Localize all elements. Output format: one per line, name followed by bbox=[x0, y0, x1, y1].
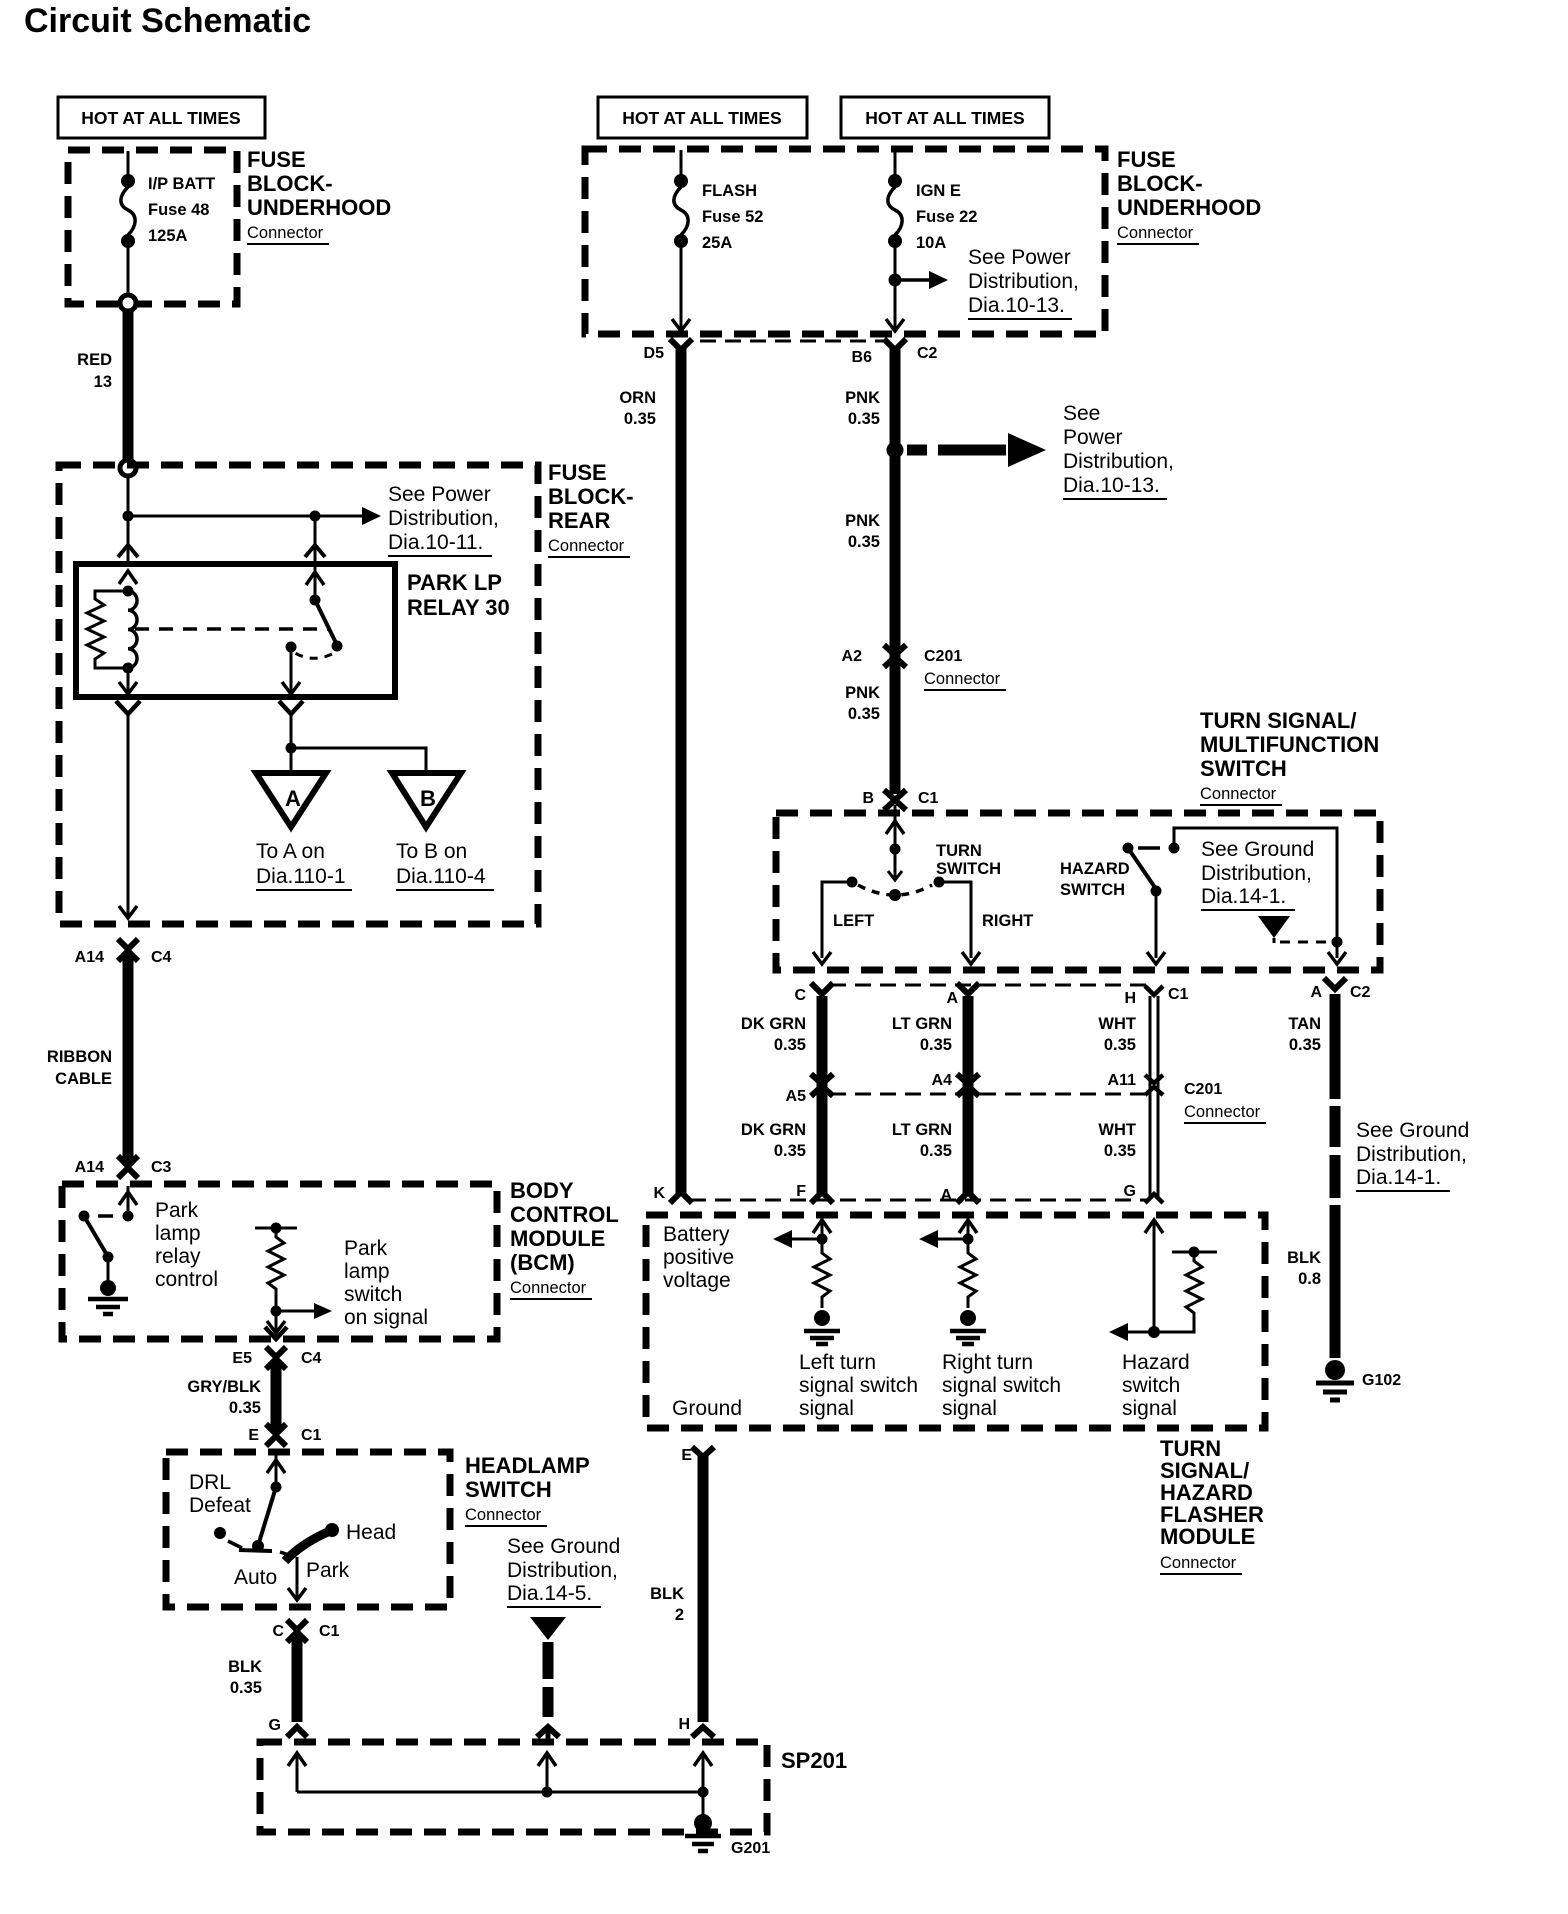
inline connector B/C1 bbox=[884, 790, 906, 810]
svg-text:E5: E5 bbox=[232, 1350, 252, 1367]
svg-text:lamp: lamp bbox=[344, 1260, 390, 1283]
svg-text:0.8: 0.8 bbox=[1298, 1270, 1321, 1288]
svg-text:H: H bbox=[1124, 990, 1136, 1007]
svg-text:0.35: 0.35 bbox=[1289, 1036, 1321, 1054]
HOT AT ALL TIMES box 2 bbox=[598, 97, 807, 138]
svg-text:C3: C3 bbox=[151, 1159, 172, 1176]
svg-text:LT GRN: LT GRN bbox=[892, 1121, 952, 1139]
ground dist wire triangle bbox=[530, 1617, 566, 1640]
hazard resistor bbox=[1172, 1251, 1217, 1254]
dashed connector line module row bbox=[690, 1199, 1146, 1202]
svg-text:CABLE: CABLE bbox=[55, 1070, 112, 1088]
svg-text:IGN E: IGN E bbox=[916, 182, 961, 200]
head contact arc bbox=[285, 1531, 330, 1561]
svg-text:PNK: PNK bbox=[845, 389, 880, 407]
svg-text:Connector: Connector bbox=[924, 670, 1001, 688]
turn switch dashed arc bbox=[858, 885, 932, 895]
down arrow at relay bottom left bbox=[119, 682, 137, 694]
svg-text:Circuit Schematic: Circuit Schematic bbox=[24, 2, 311, 40]
svg-text:C2: C2 bbox=[1350, 984, 1371, 1001]
inline connector A4 bbox=[957, 1074, 979, 1096]
branch arrow see power distribution bbox=[889, 274, 902, 287]
svg-text:DRL: DRL bbox=[189, 1471, 231, 1494]
ground G201 bbox=[702, 1792, 705, 1816]
svg-text:C4: C4 bbox=[151, 949, 172, 966]
fuse F22 IGN E 10A bbox=[888, 174, 902, 188]
svg-text:C201: C201 bbox=[924, 648, 962, 665]
svg-text:0.35: 0.35 bbox=[230, 1679, 262, 1697]
left turn resistor to ground bbox=[814, 1239, 830, 1308]
svg-text:2: 2 bbox=[675, 1606, 684, 1624]
wire into fuse 48 bbox=[127, 151, 130, 176]
node bbox=[123, 1211, 134, 1222]
svg-text:switch: switch bbox=[344, 1283, 402, 1306]
fuse F52 FLASH 25A bbox=[674, 174, 688, 188]
connector ring at fuse block bottom bbox=[120, 295, 136, 311]
wire to see power distribution bbox=[128, 515, 364, 518]
svg-text:Power: Power bbox=[1063, 426, 1123, 449]
wire dashed segments bbox=[1330, 1106, 1341, 1147]
inline connector A5 bbox=[811, 1074, 833, 1096]
svg-text:HAZARD: HAZARD bbox=[1060, 860, 1130, 878]
headlamp switch input wire bbox=[275, 1454, 278, 1487]
svg-text:BLK: BLK bbox=[228, 1658, 262, 1676]
PARK LP RELAY 30 box bbox=[76, 564, 395, 697]
svg-text:0.35: 0.35 bbox=[848, 533, 880, 551]
wire BLK 0.8 bbox=[1330, 1205, 1341, 1358]
svg-text:HOT AT ALL TIMES: HOT AT ALL TIMES bbox=[865, 108, 1024, 128]
svg-text:See Power: See Power bbox=[388, 483, 491, 506]
chevron above relay right bbox=[305, 545, 325, 557]
svg-text:HOT AT ALL TIMES: HOT AT ALL TIMES bbox=[622, 108, 781, 128]
svg-text:HEADLAMP: HEADLAMP bbox=[465, 1453, 590, 1478]
svg-text:BODY: BODY bbox=[510, 1178, 574, 1203]
wire BLK 0.35 bbox=[292, 1633, 303, 1722]
svg-text:H: H bbox=[678, 1716, 690, 1733]
svg-text:Dia.14-5.: Dia.14-5. bbox=[507, 1582, 592, 1605]
svg-text:0.35: 0.35 bbox=[774, 1036, 806, 1054]
triangle A bbox=[256, 773, 326, 827]
svg-text:WHT: WHT bbox=[1098, 1015, 1136, 1033]
svg-text:SWITCH: SWITCH bbox=[465, 1477, 552, 1502]
right turn input arrow bbox=[967, 1222, 970, 1239]
relay resistor bbox=[87, 591, 128, 668]
svg-text:DK GRN: DK GRN bbox=[741, 1015, 806, 1033]
wire LT GRN 0.35 bbox=[963, 996, 974, 1196]
svg-text:A14: A14 bbox=[75, 949, 104, 966]
inline connector G bbox=[1145, 1194, 1163, 1203]
svg-text:DK GRN: DK GRN bbox=[741, 1121, 806, 1139]
wire below coil bbox=[127, 668, 130, 695]
svg-text:Connector: Connector bbox=[510, 1279, 587, 1297]
dashed ground wire bbox=[543, 1642, 554, 1717]
svg-text:Fuse 22: Fuse 22 bbox=[916, 208, 977, 226]
svg-text:BLOCK-: BLOCK- bbox=[548, 484, 634, 509]
svg-text:0.35: 0.35 bbox=[229, 1399, 261, 1417]
svg-text:Dia.110-1: Dia.110-1 bbox=[256, 865, 346, 888]
hazard link wire to ground side bbox=[1174, 828, 1337, 958]
svg-text:Distribution,: Distribution, bbox=[388, 507, 499, 530]
svg-text:FUSE: FUSE bbox=[247, 147, 306, 172]
svg-text:Battery: Battery bbox=[663, 1223, 730, 1246]
wire GRY/BLK 0.35 bbox=[271, 1360, 282, 1432]
turn signal hazard flasher module box bbox=[646, 1215, 1265, 1428]
connector at SP201 middle bbox=[537, 1727, 559, 1737]
wire RIBBON CABLE bbox=[123, 952, 134, 1165]
svg-text:Connector: Connector bbox=[465, 1506, 542, 1524]
svg-text:A11: A11 bbox=[1108, 1072, 1137, 1089]
svg-text:G: G bbox=[269, 1717, 281, 1734]
fuse block underhood middle (connector box) bbox=[585, 149, 1105, 334]
svg-text:To A on: To A on bbox=[256, 840, 325, 863]
svg-text:TURN SIGNAL/: TURN SIGNAL/ bbox=[1200, 708, 1356, 733]
svg-text:C2: C2 bbox=[917, 345, 938, 362]
inline connector A bbox=[957, 1192, 979, 1203]
svg-text:Park: Park bbox=[155, 1199, 199, 1222]
branch wire to B bbox=[291, 748, 426, 771]
svg-text:Distribution,: Distribution, bbox=[1063, 450, 1174, 473]
svg-text:K: K bbox=[653, 1185, 665, 1202]
body control module (BCM) box bbox=[62, 1184, 497, 1339]
SP201 up arrow left bbox=[296, 1756, 299, 1792]
thick dashed arrow see power distribution bbox=[907, 445, 927, 456]
svg-text:PARK LP: PARK LP bbox=[407, 570, 502, 595]
svg-text:10A: 10A bbox=[916, 234, 946, 252]
svg-text:MULTIFUNCTION: MULTIFUNCTION bbox=[1200, 732, 1379, 757]
wire RED 13 bbox=[123, 311, 134, 460]
svg-text:A4: A4 bbox=[932, 1072, 953, 1089]
svg-text:on signal: on signal bbox=[344, 1306, 428, 1329]
svg-text:See Ground: See Ground bbox=[1201, 838, 1314, 861]
svg-text:FUSE: FUSE bbox=[548, 460, 607, 485]
svg-text:B6: B6 bbox=[852, 349, 873, 366]
svg-text:C1: C1 bbox=[1168, 986, 1189, 1003]
svg-text:0.35: 0.35 bbox=[848, 410, 880, 428]
svg-text:SWITCH: SWITCH bbox=[1060, 881, 1125, 899]
svg-text:0.35: 0.35 bbox=[1104, 1142, 1136, 1160]
svg-text:A2: A2 bbox=[842, 648, 863, 665]
relay output wire bbox=[290, 647, 293, 692]
chevron below relay left bbox=[116, 701, 140, 714]
wire BLK 2 bbox=[698, 1453, 709, 1722]
inline connector A2 bbox=[884, 645, 906, 667]
svg-text:MODULE: MODULE bbox=[510, 1226, 605, 1251]
svg-text:B: B bbox=[862, 790, 874, 807]
svg-text:13: 13 bbox=[94, 373, 112, 391]
svg-text:A14: A14 bbox=[75, 1159, 104, 1176]
svg-text:CONTROL: CONTROL bbox=[510, 1202, 619, 1227]
svg-text:Distribution,: Distribution, bbox=[1356, 1143, 1467, 1166]
arrowhead at A14 bbox=[119, 906, 137, 918]
svg-text:TAN: TAN bbox=[1288, 1015, 1321, 1033]
fuse FLASH 52 wire bbox=[680, 150, 683, 176]
svg-text:signal: signal bbox=[1122, 1397, 1177, 1420]
svg-text:BLK: BLK bbox=[650, 1585, 684, 1603]
svg-text:Head: Head bbox=[346, 1521, 396, 1544]
svg-text:control: control bbox=[155, 1268, 218, 1291]
svg-text:relay: relay bbox=[155, 1245, 201, 1268]
relay coil bbox=[123, 586, 134, 597]
ground G102 bbox=[1325, 1360, 1345, 1380]
svg-text:125A: 125A bbox=[148, 227, 188, 245]
svg-text:0.35: 0.35 bbox=[920, 1036, 952, 1054]
svg-text:Park: Park bbox=[344, 1237, 388, 1260]
svg-text:SWITCH: SWITCH bbox=[1200, 756, 1287, 781]
connector G bbox=[287, 1727, 307, 1737]
svg-text:PNK: PNK bbox=[845, 512, 880, 530]
svg-text:25A: 25A bbox=[702, 234, 732, 252]
svg-text:GRY/BLK: GRY/BLK bbox=[187, 1378, 261, 1396]
arrow park lamp switch on signal bbox=[276, 1310, 316, 1313]
left turn contact and wire bbox=[847, 877, 858, 888]
svg-text:0.35: 0.35 bbox=[774, 1142, 806, 1160]
svg-text:0.35: 0.35 bbox=[920, 1142, 952, 1160]
svg-text:Dia.14-1.: Dia.14-1. bbox=[1356, 1166, 1441, 1189]
connector chevron left leg bbox=[118, 545, 138, 557]
svg-text:G201: G201 bbox=[731, 1840, 770, 1857]
inline connector F bbox=[811, 1192, 833, 1203]
svg-text:PNK: PNK bbox=[845, 684, 880, 702]
svg-text:Ground: Ground bbox=[672, 1397, 742, 1420]
svg-text:B: B bbox=[420, 786, 436, 811]
svg-text:Dia.10-13.: Dia.10-13. bbox=[968, 294, 1065, 317]
HOT AT ALL TIMES box 3 bbox=[841, 97, 1049, 138]
svg-text:WHT: WHT bbox=[1098, 1121, 1136, 1139]
svg-text:MODULE: MODULE bbox=[1160, 1524, 1255, 1549]
svg-text:SWITCH: SWITCH bbox=[936, 860, 1001, 878]
svg-text:(BCM): (BCM) bbox=[510, 1250, 575, 1275]
SP201 box bbox=[260, 1742, 767, 1832]
SP201 bus wire bbox=[297, 1791, 703, 1794]
svg-text:BLOCK-: BLOCK- bbox=[1117, 171, 1203, 196]
svg-text:Fuse 48: Fuse 48 bbox=[148, 201, 209, 219]
svg-text:UNDERHOOD: UNDERHOOD bbox=[247, 195, 391, 220]
svg-text:C1: C1 bbox=[301, 1427, 322, 1444]
connector C2 bbox=[884, 339, 906, 350]
headlamp switch box bbox=[166, 1452, 450, 1607]
up arrow inside relay right bbox=[306, 572, 324, 585]
svg-text:BLK: BLK bbox=[1287, 1249, 1321, 1267]
svg-text:Dia.10-13.: Dia.10-13. bbox=[1063, 474, 1160, 497]
park lamp relay control switch bbox=[98, 1214, 113, 1218]
svg-text:Dia.10-11.: Dia.10-11. bbox=[388, 531, 483, 554]
svg-text:C1: C1 bbox=[918, 790, 939, 807]
svg-text:Left turn: Left turn bbox=[799, 1351, 876, 1374]
SP201 up arrow middle bbox=[546, 1756, 549, 1792]
svg-text:C1: C1 bbox=[319, 1623, 340, 1640]
svg-text:LT GRN: LT GRN bbox=[892, 1015, 952, 1033]
svg-text:TURN: TURN bbox=[936, 842, 982, 860]
relay switch leg wire bbox=[314, 521, 317, 600]
svg-text:BLOCK-: BLOCK- bbox=[247, 171, 333, 196]
fuse IGN E wire bbox=[894, 150, 897, 176]
svg-text:lamp: lamp bbox=[155, 1222, 201, 1245]
svg-text:See Power: See Power bbox=[968, 246, 1071, 269]
svg-text:See: See bbox=[1063, 402, 1100, 425]
inline connector K bbox=[670, 1192, 692, 1203]
headlamp output wire bbox=[296, 1557, 299, 1598]
node on PNK wire bbox=[887, 442, 904, 459]
inline connector E5/C4 bbox=[266, 1347, 286, 1369]
svg-text:A: A bbox=[1310, 984, 1322, 1001]
svg-text:A: A bbox=[946, 990, 958, 1007]
svg-text:A5: A5 bbox=[786, 1088, 807, 1105]
wire DK GRN 0.35 bbox=[817, 996, 828, 1196]
turn signal multifunction switch box bbox=[776, 813, 1380, 970]
relay switch bbox=[310, 595, 321, 606]
connector ring at rear fuse block top bbox=[120, 460, 136, 476]
ground reference triangle bbox=[1258, 916, 1290, 938]
inline connector C/C1 bbox=[287, 1620, 307, 1642]
dashed connector line C1 row bbox=[830, 984, 1146, 987]
svg-text:FLASH: FLASH bbox=[702, 182, 757, 200]
wire ORN 0.35 bbox=[676, 346, 687, 1196]
svg-text:G: G bbox=[1124, 1183, 1136, 1200]
hazard input wire bbox=[1153, 1222, 1156, 1332]
svg-text:Connector: Connector bbox=[1184, 1103, 1261, 1121]
svg-text:HOT AT ALL TIMES: HOT AT ALL TIMES bbox=[81, 108, 240, 128]
inline connector E/C1 bbox=[266, 1424, 286, 1446]
ground symbol in BCM bbox=[100, 1280, 116, 1296]
relay actuation dashed link bbox=[135, 627, 328, 631]
svg-text:signal: signal bbox=[799, 1397, 854, 1420]
svg-text:FUSE: FUSE bbox=[1117, 147, 1176, 172]
connector D5 bbox=[670, 339, 692, 350]
svg-text:signal: signal bbox=[942, 1397, 997, 1420]
svg-text:To B on: To B on bbox=[396, 840, 467, 863]
right turn resistor to ground bbox=[960, 1239, 976, 1308]
HOT AT ALL TIMES box 1 bbox=[58, 97, 265, 138]
svg-text:Connector: Connector bbox=[548, 537, 625, 555]
wire TAN 0.35 bbox=[1330, 994, 1341, 1099]
svg-text:E: E bbox=[248, 1427, 259, 1444]
connector E bbox=[692, 1447, 714, 1457]
connector chevrons C A H C2 bbox=[811, 978, 1346, 994]
svg-text:SP201: SP201 bbox=[781, 1748, 847, 1773]
svg-text:Dia.110-4: Dia.110-4 bbox=[396, 865, 486, 888]
SP201 up arrow right bbox=[702, 1756, 705, 1792]
park lamp switch resistor bbox=[255, 1227, 297, 1230]
svg-text:positive: positive bbox=[663, 1246, 734, 1269]
svg-text:Connector: Connector bbox=[247, 224, 324, 242]
left turn input arrow bbox=[821, 1222, 824, 1239]
fuse block underhood left (connector box) bbox=[68, 150, 237, 304]
svg-text:RIBBON: RIBBON bbox=[47, 1048, 112, 1066]
svg-text:I/P BATT: I/P BATT bbox=[148, 175, 215, 193]
svg-text:See Ground: See Ground bbox=[507, 1535, 620, 1558]
svg-text:UNDERHOOD: UNDERHOOD bbox=[1117, 195, 1261, 220]
auto contact bbox=[214, 1527, 226, 1539]
BCM input wire with up arrow bbox=[127, 1186, 130, 1216]
turn switch input wire bbox=[894, 805, 897, 877]
svg-text:C201: C201 bbox=[1184, 1081, 1222, 1098]
right turn contact and wire bbox=[934, 877, 945, 888]
svg-text:A: A bbox=[285, 786, 301, 811]
svg-text:0.35: 0.35 bbox=[1104, 1036, 1136, 1054]
svg-text:signal switch: signal switch bbox=[799, 1374, 918, 1397]
svg-text:Dia.14-1.: Dia.14-1. bbox=[1201, 885, 1286, 908]
svg-text:D5: D5 bbox=[644, 345, 665, 362]
wire WHT 0.35 (hollow) bbox=[1149, 996, 1152, 1198]
svg-text:Distribution,: Distribution, bbox=[968, 270, 1079, 293]
triangle B bbox=[392, 773, 461, 827]
rotary switch blade bbox=[257, 1487, 276, 1549]
svg-text:0.35: 0.35 bbox=[848, 705, 880, 723]
svg-text:RIGHT: RIGHT bbox=[982, 912, 1033, 930]
svg-text:C4: C4 bbox=[301, 1350, 322, 1367]
fuse F48 I/P BATT 125A bbox=[121, 174, 135, 188]
svg-text:Defeat: Defeat bbox=[189, 1494, 251, 1517]
wire down with arrow at BCM bottom bbox=[275, 1311, 278, 1334]
connector H bbox=[692, 1727, 714, 1737]
svg-text:Auto: Auto bbox=[234, 1566, 277, 1589]
wire from ring to node bbox=[127, 476, 130, 564]
svg-text:RELAY 30: RELAY 30 bbox=[407, 595, 510, 620]
node junction bbox=[123, 511, 134, 522]
wire PNK 0.35 upper bbox=[890, 346, 901, 794]
svg-text:Connector: Connector bbox=[1160, 1554, 1237, 1572]
inline connector A11 bbox=[1145, 1075, 1163, 1095]
svg-text:Distribution,: Distribution, bbox=[507, 1559, 618, 1582]
svg-text:ORN: ORN bbox=[619, 389, 656, 407]
svg-text:voltage: voltage bbox=[663, 1269, 731, 1292]
svg-text:F: F bbox=[796, 1183, 806, 1200]
svg-text:See Ground: See Ground bbox=[1356, 1119, 1469, 1142]
svg-text:0.35: 0.35 bbox=[624, 410, 656, 428]
svg-text:switch: switch bbox=[1122, 1374, 1180, 1397]
inline connector A14/C4 bbox=[118, 939, 138, 961]
svg-text:RED: RED bbox=[77, 351, 112, 369]
svg-text:REAR: REAR bbox=[548, 508, 610, 533]
svg-text:Connector: Connector bbox=[1200, 785, 1277, 803]
svg-text:signal switch: signal switch bbox=[942, 1374, 1061, 1397]
svg-text:Fuse 52: Fuse 52 bbox=[702, 208, 763, 226]
svg-text:C: C bbox=[794, 987, 806, 1004]
wire down to A14 bbox=[127, 714, 130, 916]
svg-text:LEFT: LEFT bbox=[833, 912, 874, 930]
svg-text:G102: G102 bbox=[1362, 1372, 1401, 1389]
svg-text:Connector: Connector bbox=[1117, 224, 1194, 242]
dashed connector line D5-C2 bbox=[700, 340, 884, 343]
svg-text:C: C bbox=[272, 1623, 284, 1640]
dashed connector line C201 row bbox=[830, 1093, 1146, 1096]
relay coil up arrow bbox=[119, 571, 137, 584]
svg-text:Distribution,: Distribution, bbox=[1201, 862, 1312, 885]
inline connector A14/C3 bbox=[118, 1156, 138, 1178]
svg-text:Right turn: Right turn bbox=[942, 1351, 1033, 1374]
fuse block rear (connector box) bbox=[59, 465, 538, 924]
svg-text:Hazard: Hazard bbox=[1122, 1351, 1190, 1374]
svg-text:Park: Park bbox=[306, 1559, 350, 1582]
